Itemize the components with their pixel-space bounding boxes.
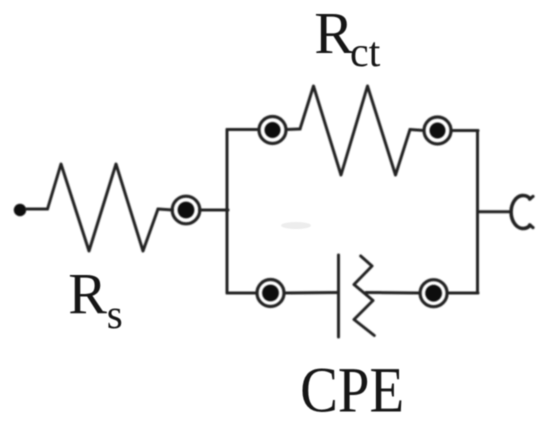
svg-text:R: R bbox=[314, 0, 354, 66]
svg-text:CPE: CPE bbox=[300, 355, 404, 426]
label CPE bbox=[300, 355, 404, 426]
wire bbox=[286, 128, 300, 132]
wire (left vertical rail of parallel branch) bbox=[226, 130, 229, 294]
node (circled dot, mid-left) bbox=[172, 196, 200, 224]
wire (top rail, left segment) bbox=[227, 128, 259, 131]
svg-text:R: R bbox=[68, 262, 107, 327]
terminal C (right electrode, open arc) bbox=[511, 196, 533, 229]
wire bbox=[158, 209, 173, 210]
wire (right vertical rail of parallel branch) bbox=[476, 131, 479, 294]
node (circled dot, top-right) bbox=[424, 117, 451, 144]
wire (bottom rail, right segment) bbox=[447, 292, 478, 295]
resistor Rs bbox=[48, 164, 159, 251]
wire (bottom rail, left segment) bbox=[227, 292, 257, 295]
wire bbox=[200, 209, 229, 212]
capacitor plate of CPE bbox=[337, 255, 340, 337]
wire bbox=[410, 130, 424, 131]
wire bbox=[366, 291, 420, 295]
wire (top rail, right segment) bbox=[451, 129, 478, 132]
node (circled dot, bottom-left) bbox=[257, 280, 284, 307]
node (circled dot, bottom-right) bbox=[420, 280, 447, 307]
svg-text:ct: ct bbox=[350, 30, 381, 76]
label Rs bbox=[68, 262, 122, 337]
smudge artifact bbox=[281, 222, 311, 229]
label Rct bbox=[314, 0, 380, 76]
terminal dot (left electrode) bbox=[14, 204, 26, 216]
node (circled dot, top-left) bbox=[259, 117, 286, 144]
wire bbox=[27, 208, 48, 211]
svg-text:s: s bbox=[107, 291, 123, 337]
wire bbox=[284, 291, 338, 295]
wire (right output tap) bbox=[478, 210, 511, 213]
CPE zigzag element bbox=[354, 256, 374, 336]
resistor Rct bbox=[300, 86, 410, 175]
